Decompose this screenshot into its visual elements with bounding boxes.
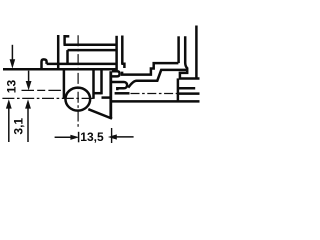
wire right border (195, 26, 198, 79)
dimension tick at center line (78, 132, 80, 143)
svg-text:13: 13 (4, 80, 18, 94)
wire diagonal bracket bottom (88, 109, 112, 118)
wire right vertical 2 with curve step (180, 36, 200, 78)
wire pocket left (92, 70, 95, 99)
wire chamber inner top line (68, 49, 116, 52)
wire E bracket mid bar (178, 87, 195, 90)
wire datum line2 (3, 68, 116, 71)
wire balloon rounded box (112, 82, 127, 90)
dimension tick below wall (111, 128, 113, 143)
node offset axis left (22, 89, 65, 91)
wire left lower wall to circle (63, 69, 66, 98)
dimension arrow up 3,1 (27, 107, 29, 142)
wire lower staircase contour (128, 70, 186, 88)
wire roof top line (64, 43, 116, 46)
wire chamber inner left wall (66, 50, 69, 63)
dimension arrow left 13,5 (117, 136, 134, 138)
svg-text:3,1: 3,1 (12, 118, 26, 135)
wire long bottom line (112, 100, 200, 103)
node horizontal center line (2, 97, 95, 99)
wire upper staircase contour (122, 63, 178, 75)
wire right wall inner (115, 36, 118, 70)
wire line1 stub right of box with hook down (121, 64, 124, 68)
wire right vertical 1 (177, 36, 180, 63)
wire left roof-end vertical (63, 35, 66, 45)
node vertical center line (77, 35, 79, 127)
wire solid segment y93 (115, 92, 130, 95)
wire E bracket spine (177, 78, 180, 101)
wire shelf to wall (102, 96, 111, 99)
dimension arrow right 13,5 (55, 136, 71, 138)
wire right wall outer (121, 36, 124, 64)
dimension arrow down 3,1 (28, 71, 30, 83)
wire pocket right (100, 70, 103, 94)
wire tab on wall (112, 71, 120, 76)
circle roller tube (65, 88, 90, 111)
wire E bracket lower bar (178, 92, 200, 95)
wire chamber bottom line1 (47, 63, 116, 66)
wire top crop tick (65, 35, 70, 38)
wire left hook (42, 59, 47, 68)
dimension arrow down 13 (11, 45, 13, 62)
node offset axis right dashes (131, 93, 178, 95)
dimension arrow up 13 (8, 107, 10, 142)
wire right thick wall (109, 71, 112, 119)
wire pocket bottom (94, 92, 102, 95)
wire left outer wall (57, 35, 60, 68)
svg-text:13,5: 13,5 (80, 130, 104, 144)
